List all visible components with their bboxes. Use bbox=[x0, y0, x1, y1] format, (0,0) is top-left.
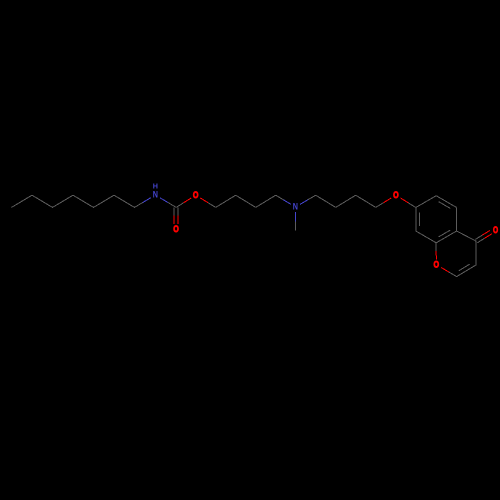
wire: carbamate C=O double bond bbox=[173, 207, 175, 215]
wire: linker2 bond 3 bbox=[356, 195, 376, 207]
wire: linker1 bond 1 bbox=[216, 195, 236, 207]
wire: heptyl C4-C3 bond bbox=[73, 195, 94, 207]
wire: pyranone C8a-O1 bond bbox=[435, 243, 437, 251]
wire: heptyl C5-C4 bond bbox=[53, 195, 74, 207]
wire: carbamate C-O ester bond bbox=[176, 203, 184, 208]
wire: benzene C5-C4a edge bbox=[456, 208, 458, 232]
wire: benzene C7=C8 inner line bbox=[419, 213, 421, 227]
wire: N-C(carbamate) bond bbox=[160, 198, 168, 203]
svg-text:O: O bbox=[393, 190, 399, 201]
wire: linker2 bond 2 bbox=[336, 195, 356, 207]
wire: linker1 bond 2 bbox=[236, 195, 256, 207]
wire: benzene C8-C7 edge bbox=[415, 208, 417, 232]
wire: benzene C5=C6 inner line bbox=[439, 202, 451, 209]
wire: benzene C7-C6 edge bbox=[416, 196, 436, 208]
wire: heptyl C7-C6 bond bbox=[12, 195, 33, 207]
svg-text:O: O bbox=[193, 190, 199, 201]
wire: N-CH3 bond bbox=[295, 212, 297, 221]
wire: pyranone C3-C4 bond bbox=[475, 241, 477, 265]
wire: linker2 C4-O ether bond bbox=[376, 203, 384, 208]
wire: heptyl C2-C1 bond bbox=[114, 195, 135, 207]
wire: benzene C8a-C8 edge bbox=[416, 231, 436, 243]
wire: benzene C4a-C8a edge bbox=[436, 231, 456, 243]
wire: C1-N bond bbox=[135, 203, 143, 208]
svg-text:N: N bbox=[153, 190, 158, 201]
wire: linker1 C4-N bond bbox=[276, 195, 284, 200]
wire: linker1 bond 3 bbox=[256, 195, 276, 207]
wire: linker2 bond 1 bbox=[316, 195, 336, 207]
wire: benzene C6-C5 edge bbox=[436, 196, 456, 208]
wire: heptyl C3-C2 bond bbox=[94, 195, 115, 207]
svg-text:O: O bbox=[434, 259, 440, 270]
wire: heptyl C6-C5 bond bbox=[32, 195, 53, 207]
wire: ether O-C7(aryl) bond bbox=[401, 198, 409, 203]
wire: benzene C4a=C8a inner line bbox=[439, 230, 451, 237]
svg-text:N: N bbox=[293, 201, 298, 212]
wire: pyranone C2-C3 bond bbox=[457, 265, 477, 277]
wire: pyranone O1-C2 bond bbox=[441, 267, 449, 272]
wire: pyranone C4-C4a bond bbox=[457, 231, 477, 241]
wire: chromone C4=O double bond bbox=[477, 238, 484, 243]
wire: pyranone C2=C3 inner line bbox=[459, 264, 470, 271]
svg-text:O: O bbox=[173, 224, 179, 235]
wire: N-linker2 bond bbox=[300, 200, 308, 205]
wire: ester O-CH2 bond bbox=[200, 198, 208, 203]
svg-text:O: O bbox=[493, 224, 498, 235]
